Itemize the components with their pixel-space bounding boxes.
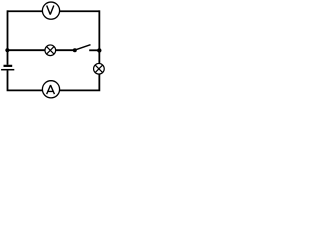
lamp L2 xyxy=(94,63,105,74)
wire left vertical (battery up through node to top-left corner) xyxy=(7,10,9,64)
switch S (open) xyxy=(73,45,91,53)
wire right-bottom (lamp L2 to bottom-right corner, then left to ammeter) xyxy=(60,74,99,90)
wire middle-left (node to lamp L1) xyxy=(8,49,45,51)
switch left contact dot xyxy=(73,48,77,52)
wire middle (lamp L1 to switch contact) xyxy=(56,49,73,51)
ammeter A xyxy=(42,81,59,98)
wire top-right (voltmeter to top-right corner) xyxy=(60,10,99,12)
wire top-left (top-left corner to voltmeter) xyxy=(8,10,43,12)
battery long thin plate (bottom) xyxy=(1,69,14,71)
wire switch stub (right contact to right wire) xyxy=(89,49,99,51)
wire right vertical (top-right corner down to lamp L2) xyxy=(98,10,100,63)
lamp L1 xyxy=(45,45,56,56)
wire bottom-left (ammeter to bottom-left corner, then up to battery) xyxy=(8,70,43,90)
battery cell xyxy=(1,66,14,70)
voltmeter V xyxy=(42,2,59,19)
battery short thick plate (top) xyxy=(4,65,13,67)
node left junction (middle branch taps left wire) xyxy=(5,48,9,52)
switch blade xyxy=(75,45,90,50)
node right junction (switch stub meets right wire) xyxy=(97,48,101,52)
